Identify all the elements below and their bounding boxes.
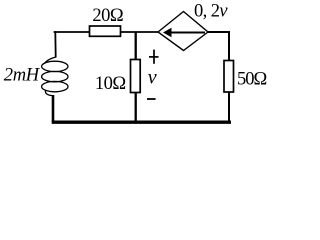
svg-text:v: v: [148, 67, 157, 89]
wire left-top segment: [54, 31, 56, 57]
wire middle-bottom segment: [135, 93, 137, 123]
wire middle-top segment: [135, 32, 137, 60]
svg-text:0, 2v: 0, 2v: [194, 1, 228, 21]
minus sign of v: [147, 98, 156, 100]
dependent current source diamond: [158, 12, 208, 51]
resistor 20Ω body: [90, 26, 121, 36]
resistor 50Ω body: [224, 61, 234, 93]
dependent source arrow: [163, 28, 205, 37]
wire bottom segment: [52, 121, 231, 124]
svg-text:2mH: 2mH: [4, 65, 41, 85]
wire right-bottom segment: [228, 92, 230, 124]
inductor 2mH coil: [42, 57, 68, 96]
svg-text:50Ω: 50Ω: [237, 70, 267, 90]
plus sign of v: [149, 50, 159, 64]
wire top-middle segment: [121, 31, 159, 33]
svg-text:10Ω: 10Ω: [95, 74, 126, 94]
wire top-right segment: [208, 32, 230, 61]
svg-text:20Ω: 20Ω: [92, 6, 123, 26]
wire top-left segment: [54, 31, 90, 33]
wire left-bottom segment: [52, 95, 55, 122]
resistor 10Ω body: [131, 60, 141, 93]
